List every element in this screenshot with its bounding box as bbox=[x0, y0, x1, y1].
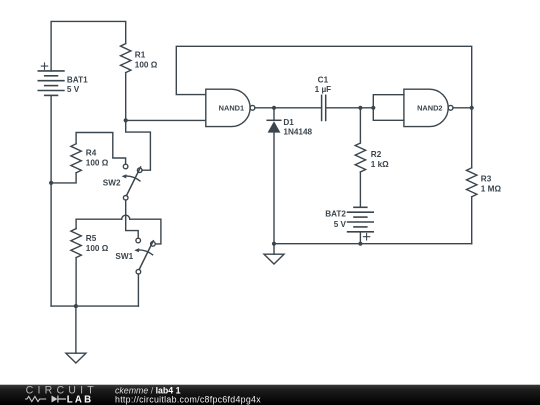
wire junction to C1 left plate bbox=[274, 107, 322, 109]
svg-text:D1: D1 bbox=[283, 118, 294, 127]
wire R1 bottom to junction bbox=[125, 73, 127, 121]
svg-text:1 kΩ: 1 kΩ bbox=[371, 160, 389, 169]
wire SW2 common down to SW1 left throw bbox=[126, 200, 139, 238]
footer bar bbox=[0, 385, 540, 405]
wire bottom-left rail bbox=[51, 305, 138, 307]
svg-text:1 MΩ: 1 MΩ bbox=[481, 185, 502, 194]
node junction NAND2 input bar bbox=[371, 106, 375, 110]
wire bottom middle rail bbox=[274, 243, 472, 245]
wire junction to NAND1 input B bbox=[126, 119, 206, 121]
node junction R2 top bbox=[358, 106, 362, 110]
wire SW1 common to bottom-left rail bbox=[137, 274, 139, 306]
svg-text:BAT1: BAT1 bbox=[67, 75, 88, 84]
svg-text:1N4148: 1N4148 bbox=[283, 128, 312, 137]
node junction NAND1 out bbox=[272, 106, 276, 110]
svg-text:http://circuitlab.com/c8fpc6fd: http://circuitlab.com/c8fpc6fd4pg4x bbox=[115, 395, 261, 405]
wire R4 bottom to left rail bbox=[51, 173, 76, 183]
wire C1 right plate to NAND2 inputs bbox=[326, 107, 374, 109]
svg-text:1 µF: 1 µF bbox=[315, 85, 332, 94]
svg-text:R4: R4 bbox=[86, 148, 97, 157]
resistor R5 bbox=[71, 229, 81, 258]
wire R5 top to SW1 right throw riser with hop bbox=[76, 219, 122, 228]
svg-text:100 Ω: 100 Ω bbox=[86, 244, 109, 253]
wire hop over SW2 common bbox=[122, 215, 130, 219]
resistor R1 bbox=[120, 44, 130, 73]
svg-text:R2: R2 bbox=[371, 150, 382, 159]
svg-text:R3: R3 bbox=[481, 175, 492, 184]
svg-text:5 V: 5 V bbox=[334, 220, 347, 229]
svg-text:SW2: SW2 bbox=[103, 178, 121, 187]
node junction D1/ground bbox=[272, 242, 276, 246]
wire NAND1 output to junction bbox=[255, 107, 274, 109]
resistor R4 bbox=[71, 144, 81, 173]
wire R4 top loop to SW2 left throw bbox=[76, 133, 126, 165]
node junction NAND2 out bbox=[470, 106, 474, 110]
node junction R1/NAND1-B bbox=[124, 118, 128, 122]
wire R5 bottom to rail bbox=[75, 258, 77, 307]
capacitor C1 bbox=[322, 95, 326, 120]
svg-text:100 Ω: 100 Ω bbox=[86, 158, 109, 167]
svg-text:R5: R5 bbox=[86, 234, 97, 243]
battery BAT1 bbox=[38, 63, 64, 96]
node junction R4 / left rail bbox=[49, 181, 53, 185]
wire R2 junction down bbox=[359, 108, 361, 143]
svg-text:5 V: 5 V bbox=[67, 85, 80, 94]
svg-text:NAND1: NAND1 bbox=[219, 103, 244, 112]
nand-gate NAND1 bbox=[206, 89, 255, 126]
nand-gate NAND2 bbox=[404, 89, 453, 126]
switch SW2 bbox=[122, 164, 142, 200]
resistor R3 bbox=[467, 168, 477, 197]
wire R2 bottom to BAT2 bbox=[359, 172, 361, 207]
wire NAND2 output to feedback node bbox=[453, 107, 472, 109]
svg-text:LAB: LAB bbox=[67, 395, 94, 405]
wire NAND2 input bar bbox=[373, 95, 404, 121]
svg-text:BAT2: BAT2 bbox=[325, 210, 346, 219]
svg-text:NAND2: NAND2 bbox=[417, 103, 442, 112]
svg-text:100 Ω: 100 Ω bbox=[135, 61, 158, 70]
wire top-left from BAT1 plus to R1 top bbox=[51, 21, 126, 71]
svg-text:SW1: SW1 bbox=[115, 252, 133, 261]
node junction BAT2 bottom bbox=[358, 242, 362, 246]
switch SW1 bbox=[134, 238, 155, 274]
ground bottom-left bbox=[66, 306, 86, 363]
wire hop right to riser bbox=[130, 219, 161, 244]
logo diode symbol bbox=[52, 396, 58, 403]
wire NAND1 input A feedback from NAND2 output bbox=[176, 46, 471, 108]
wire BAT2 bottom to rail bbox=[359, 232, 361, 244]
battery BAT2 bbox=[348, 207, 374, 240]
wire feedback node down to R3 bbox=[471, 108, 473, 168]
wire junction down to SW2 right throw bbox=[126, 120, 151, 170]
logo resistor zigzag bbox=[25, 396, 46, 401]
svg-text:C1: C1 bbox=[318, 75, 329, 84]
diode D1 bbox=[267, 108, 281, 244]
node junction R5 bottom bbox=[74, 304, 78, 308]
ground middle bbox=[264, 244, 284, 264]
resistor R2 bbox=[355, 143, 365, 172]
svg-text:R1: R1 bbox=[135, 51, 146, 60]
wire R3 bottom to rail bbox=[471, 197, 473, 244]
wire left rail BAT1 bottom down to bottom-left rail bbox=[50, 95, 52, 306]
